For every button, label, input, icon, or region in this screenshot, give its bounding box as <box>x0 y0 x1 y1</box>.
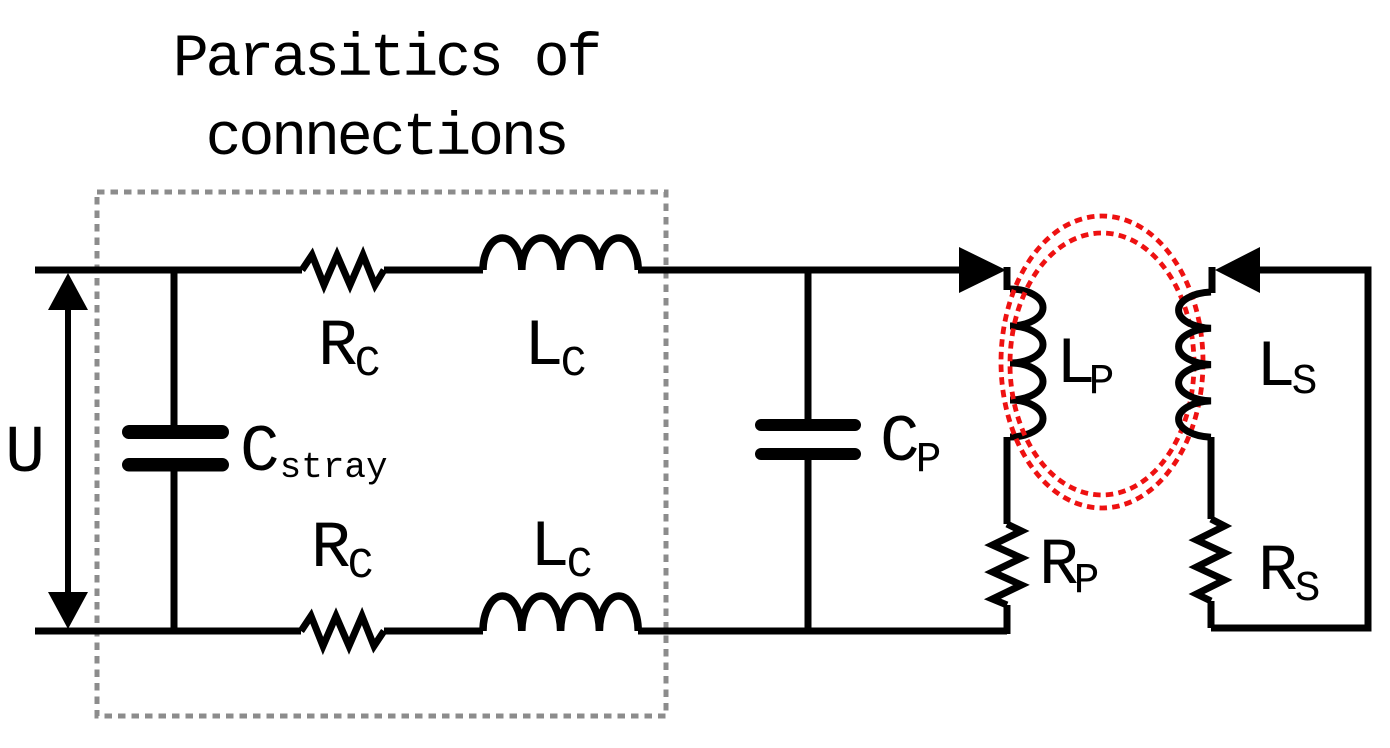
inductor L_S (secondary coil) <box>1179 292 1211 437</box>
capacitor C_stray <box>122 425 229 472</box>
wire C_P stem bottom <box>805 460 812 634</box>
svg-text:U: U <box>5 416 45 492</box>
coupling ellipse inner (red dashed) <box>1010 233 1194 495</box>
arrow into primary coil <box>959 247 1006 293</box>
wire C_stray stem top <box>171 267 178 425</box>
dashed box: parasitics of connections <box>97 192 666 716</box>
resistor R_S <box>1197 519 1225 601</box>
wire top (primary, y=270) <box>35 267 959 274</box>
inductor L_C (top) <box>483 238 638 270</box>
source U double arrow <box>48 273 88 629</box>
wire jog to L_P top <box>1004 267 1011 290</box>
wire C_stray stem bottom <box>171 471 178 634</box>
svg-text:connections: connections <box>206 105 567 173</box>
arrow into secondary coil <box>1215 247 1260 293</box>
inductor L_P (primary coil) <box>1010 289 1043 437</box>
wire R_P bottom lead <box>1004 605 1011 634</box>
inductor L_C (bottom) <box>483 596 638 631</box>
resistor R_C (bottom) <box>301 616 384 646</box>
wire bottom (primary, y=630) <box>35 628 1007 635</box>
coupling ellipse outer (red dashed) <box>1001 216 1203 508</box>
wire R_S bottom lead <box>1208 601 1215 628</box>
svg-text:Parasitics of: Parasitics of <box>173 26 600 94</box>
title: Parasitics of connections <box>173 26 600 173</box>
capacitor C_P <box>755 419 861 460</box>
wire L_P bottom lead <box>1004 437 1011 524</box>
wire jog to L_S top <box>1209 267 1216 293</box>
wire L_S bottom lead <box>1208 437 1215 519</box>
resistor R_C (top) <box>302 255 384 285</box>
resistor R_P <box>993 524 1022 605</box>
wire C_P stem top <box>805 267 812 419</box>
wire secondary loop (top, right, bottom) <box>1211 270 1368 628</box>
